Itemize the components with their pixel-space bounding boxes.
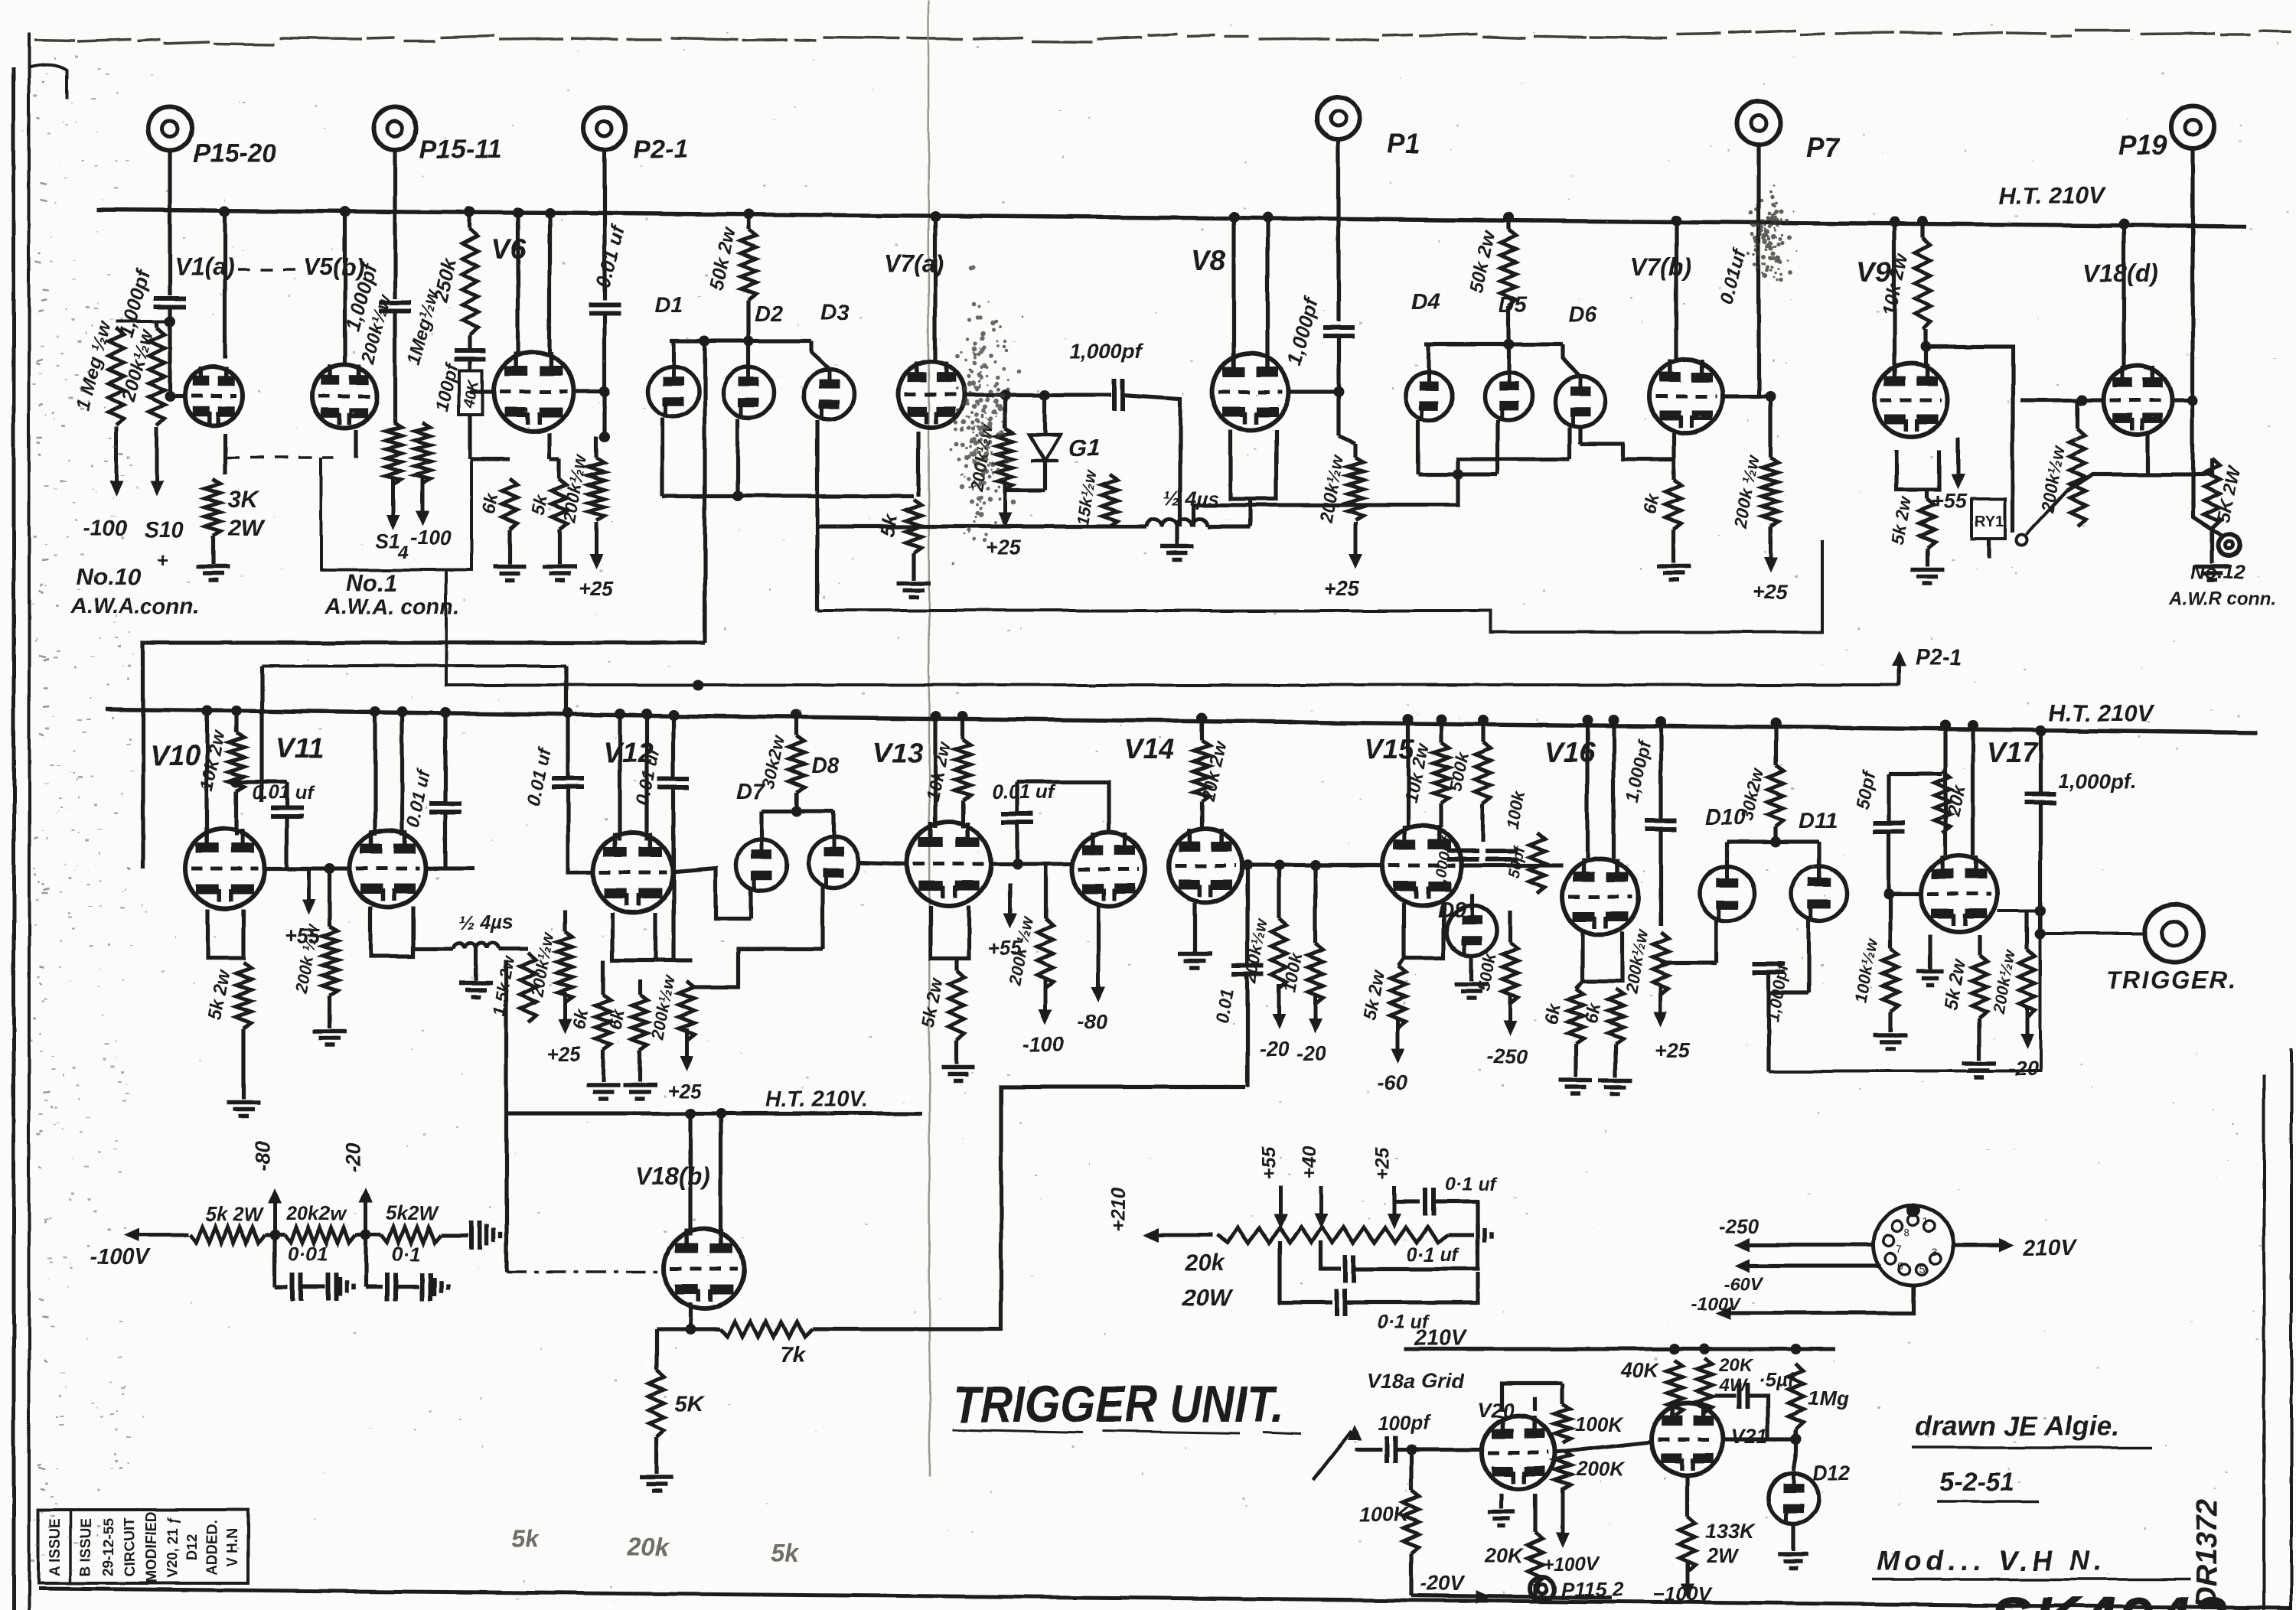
smudge near V7a <box>950 265 1022 565</box>
arrow input NE <box>1348 1425 1362 1440</box>
resistor 500k (V15) <box>1476 742 1491 803</box>
ground V20 cathode <box>1488 1512 1515 1526</box>
capacitor 1,000pf (V7a-V8) <box>1114 379 1123 411</box>
resistor 500k lower (V15) <box>1502 943 1518 1004</box>
wire 20k bottom (V14) <box>1199 802 1203 829</box>
wire branch bot right <box>1345 1272 1478 1302</box>
resistor 100k (V14) <box>1308 943 1323 1004</box>
svg-text:2W: 2W <box>1706 1544 1740 1567</box>
junction V18b cathode <box>685 1324 696 1335</box>
junction rail1 V6a <box>513 207 523 218</box>
junction -20 node <box>360 1230 371 1240</box>
ground chain end <box>487 1224 501 1246</box>
wire D4 cathode down <box>1416 420 1420 474</box>
junction rail2 30k D10 <box>1770 718 1781 728</box>
junction V18b L <box>685 1108 696 1119</box>
arrow to +55 (V10) <box>302 869 316 915</box>
wire 100k top (V17) <box>1888 894 1892 949</box>
wire V13 grid right <box>993 862 1071 865</box>
svg-text:-20: -20 <box>342 1142 365 1172</box>
wire V8 anode R to rail <box>1265 217 1269 354</box>
arrow to +25 (V6) <box>589 522 603 569</box>
svg-text:5k2W: 5k2W <box>386 1201 439 1224</box>
wire D8 to V13 grid <box>857 862 907 864</box>
wire D4-D6 anode bus <box>1425 342 1563 346</box>
junction 20K4W <box>1699 1344 1710 1354</box>
wire +55 stub (V13) <box>1008 883 1012 898</box>
wire D7 cathode dn <box>748 889 752 918</box>
wire V7b cathode stub <box>1671 433 1675 479</box>
junction -80 node <box>269 1230 280 1240</box>
junction rail1 V7b <box>1671 215 1681 226</box>
resistor 200K (chain) <box>1555 1451 1570 1489</box>
wire -80 cap run <box>275 1285 288 1289</box>
wire -20 node dn <box>364 1235 367 1287</box>
wire V13 cathode loop <box>931 906 969 958</box>
junction 40K <box>1669 1344 1680 1354</box>
wire P19 stem <box>2190 148 2194 505</box>
wire 500k dn (V15) <box>1481 803 1485 842</box>
svg-text:V17: V17 <box>1987 737 2039 768</box>
capacitor 100pf <box>1387 1436 1395 1463</box>
svg-text:-80: -80 <box>251 1141 274 1171</box>
wire 250k top <box>468 212 471 228</box>
wire D6 cathode down <box>1567 427 1571 459</box>
wire V16 cathode loop <box>1583 932 1623 981</box>
wire 30k top (D10) <box>1773 723 1777 765</box>
border left inner line <box>28 32 31 1610</box>
arrow -60V left <box>1734 1259 1750 1273</box>
resistor 5k2w (V15) <box>1391 966 1406 1027</box>
junction rail1 V8b <box>1262 212 1273 223</box>
wire V18d grid left <box>2020 398 2102 402</box>
svg-text:RY1: RY1 <box>1975 513 2004 530</box>
arrow to -20 (V17) <box>2020 1007 2034 1050</box>
junction rail2 20k V14 <box>1196 712 1207 723</box>
junction D4D5 bus <box>1453 469 1463 480</box>
connector P2-1 <box>583 107 626 150</box>
junction 200k V14 <box>1274 860 1284 871</box>
svg-text:4W: 4W <box>1718 1375 1748 1396</box>
wire cap top to V14 <box>1017 782 1109 833</box>
wire V8 loop down <box>1248 499 1252 526</box>
ground under D9 <box>1455 984 1489 998</box>
ground under coil (V11) <box>459 983 493 997</box>
wire P2-1 lower stem <box>602 313 606 436</box>
wire V12L cap dn <box>568 787 593 872</box>
svg-text:20k: 20k <box>627 1533 670 1560</box>
arrow -100V left (socket) <box>1716 1306 1731 1320</box>
wire 50k top to rail (D5) <box>1506 217 1510 230</box>
junction V18b R <box>716 1108 726 1119</box>
resistor 1 Meg half-w <box>109 328 124 425</box>
resistor 5k2w (V13) <box>949 970 964 1041</box>
junction bus D2 <box>743 336 754 347</box>
svg-text:-100V: -100V <box>1691 1294 1742 1315</box>
resistor 10k2w (V10) <box>229 733 244 791</box>
arrow -250 left <box>1734 1238 1750 1252</box>
svg-text:20K: 20K <box>1718 1355 1754 1376</box>
ground under 3K <box>196 567 230 581</box>
svg-text:5k: 5k <box>511 1525 540 1553</box>
potentiometer 20k 20W body <box>1217 1227 1448 1243</box>
wire 6kL top (V16) <box>1576 981 1583 989</box>
resistor 6k (V12 R) <box>632 995 647 1050</box>
junction V17 grid <box>1883 888 1894 899</box>
resistor 5k2w (V10) <box>236 963 251 1029</box>
wire D10 cathode route <box>1661 960 1717 964</box>
svg-text:-20: -20 <box>2008 1058 2038 1080</box>
wire V14R gnd stub <box>1192 932 1196 952</box>
wire -20 cap run <box>366 1285 383 1289</box>
wire D9 anode stub <box>1469 894 1473 908</box>
wire P15-20 stem <box>168 150 171 295</box>
resistor 5K (V6) <box>552 479 567 530</box>
resistor 5k 2w (V9) <box>1919 499 1935 548</box>
capacitor 0.01uf (V12 left) <box>552 779 584 787</box>
svg-text:+25: +25 <box>1753 580 1789 603</box>
svg-text:0.01 uf: 0.01 uf <box>253 782 315 803</box>
svg-text:V20, 21 ƒ: V20, 21 ƒ <box>165 1516 181 1578</box>
wire 1Mg dn <box>1794 1429 1798 1452</box>
wire 200k dn (V11) <box>328 995 331 1028</box>
wire D1 anode stub <box>671 341 675 367</box>
svg-text:D3: D3 <box>820 301 849 325</box>
junction 100pf-100K <box>1406 1444 1417 1455</box>
junction bus D5 <box>1503 339 1514 350</box>
junction rail2 V16b <box>1608 715 1619 725</box>
resistor 30k2w (D10) <box>1768 765 1783 826</box>
resistor 20K 4W <box>1697 1358 1712 1413</box>
capacitor 1000pf (V17 right) <box>2024 794 2056 803</box>
capacitor 0.1 (chain) <box>387 1273 396 1301</box>
wire 5k dn (V9) <box>1925 548 1929 566</box>
wire cap dn (V10) <box>285 782 289 808</box>
svg-text:-100: -100 <box>410 526 452 549</box>
wire V18d cathode stub <box>2146 435 2150 474</box>
wire 6kR dn <box>638 1050 641 1082</box>
wire 210V line (socket) <box>1953 1243 1999 1247</box>
wire 5k top (V17) <box>1977 935 1981 955</box>
double triode V13 <box>907 822 991 906</box>
wire branch 0.1uf bot <box>1280 1241 1332 1302</box>
svg-text:5: 5 <box>1919 1262 1926 1274</box>
wire 6K dn <box>507 530 511 565</box>
wire loop to 5k (V15) <box>1398 958 1404 966</box>
wire +55 stub <box>1955 441 1959 453</box>
svg-text:P2-1: P2-1 <box>1915 645 1962 670</box>
wire trigger run <box>2040 932 2144 935</box>
capacitor 0.01 (chain) <box>292 1273 301 1301</box>
wire P19 to No.12 <box>2193 501 2221 535</box>
wire 5K horiz (V18b) <box>657 1327 690 1331</box>
junction rail2 V17b <box>1968 720 1978 731</box>
wire switch feed <box>2066 474 2148 491</box>
wire V21 right to D12 <box>1724 1437 1796 1441</box>
svg-text:D4: D4 <box>1411 290 1440 315</box>
wire 10k bottom (V10) <box>234 791 238 836</box>
wire 7k run <box>690 1327 719 1331</box>
double triode V10 <box>185 829 265 908</box>
junction rail2 capR V12 <box>668 709 679 720</box>
wire V12 anode R to rail2 <box>644 714 648 840</box>
wire V12R cap up <box>671 715 675 779</box>
connector No.12 <box>2218 534 2239 556</box>
svg-text:+25: +25 <box>1372 1146 1394 1180</box>
wire V8 grid right <box>1289 389 1339 393</box>
resistor 15K 2w <box>1102 474 1117 526</box>
svg-text:100pf: 100pf <box>1378 1411 1431 1434</box>
wire cap-40K <box>468 359 471 370</box>
wire 30k bottom to bus <box>794 793 798 811</box>
socket notch <box>1906 1203 1920 1217</box>
connector P115-2 <box>1530 1576 1554 1601</box>
wire 6kL dn <box>601 1050 605 1082</box>
ground under V7a 5k <box>897 583 931 597</box>
wire V6 cathode right <box>547 433 551 459</box>
double triode V15 <box>1382 826 1462 905</box>
svg-text:-100V: -100V <box>90 1245 152 1269</box>
arrow 210V right <box>1999 1238 2014 1252</box>
diode D8 <box>808 837 859 888</box>
wire 6kL top <box>601 960 605 995</box>
wire V1a grid <box>170 394 184 398</box>
svg-text:+100V: +100V <box>1543 1553 1600 1575</box>
resistor 6k (V16 R) <box>1608 989 1623 1044</box>
svg-text:1,000pf.: 1,000pf. <box>2059 770 2136 793</box>
arrow to -100 (V1a) <box>109 427 123 496</box>
wire 30k bottom (D10) <box>1773 826 1777 842</box>
wire cap dn (D11) <box>1766 973 1770 1071</box>
svg-text:20W: 20W <box>1182 1284 1233 1311</box>
wire bottom run (D11) <box>1769 934 2040 1071</box>
triode V18(d) <box>2103 366 2172 435</box>
ground pot right <box>1478 1224 1492 1246</box>
resistor 200k half-w (V11b) <box>557 932 572 1002</box>
wire V15 anode L to rail2 <box>1406 719 1410 828</box>
svg-text:40K: 40K <box>1620 1359 1661 1382</box>
svg-text:20K: 20K <box>1484 1544 1525 1567</box>
svg-text:D1: D1 <box>655 293 683 318</box>
wire 6kR dn (V16) <box>1613 1044 1617 1077</box>
svg-text:V11: V11 <box>276 732 324 764</box>
svg-text:H.T. 210V: H.T. 210V <box>2048 699 2155 726</box>
svg-text:No.1: No.1 <box>346 569 397 596</box>
wire down to loop from D bus <box>1194 474 1458 526</box>
wire to 5K <box>550 457 559 461</box>
svg-text:20k2w: 20k2w <box>285 1201 347 1224</box>
border left corner hook <box>29 65 67 99</box>
wire cap up (V13) <box>1015 782 1019 814</box>
svg-text:V13: V13 <box>872 737 923 768</box>
wire D12 dn <box>1791 1524 1795 1550</box>
junction rail2 10k V10 <box>231 706 242 716</box>
svg-text:+25: +25 <box>986 536 1022 559</box>
wire branch 0.1uf top <box>1394 1194 1420 1202</box>
junction V11 grid 200k <box>325 863 335 874</box>
wire -80 node dn <box>272 1235 276 1287</box>
wire 5K dn (V18d) <box>2210 528 2213 563</box>
wire 20k top (V14) <box>1199 718 1203 741</box>
wire 200k stub (V11b) <box>563 911 566 932</box>
resistor 5k 2W (left) <box>190 1227 265 1243</box>
double triode V16 <box>1562 859 1639 935</box>
wire V21 cathode dn <box>1685 1475 1689 1517</box>
junction V7b grid <box>1765 391 1776 402</box>
connector P15-20 <box>148 107 191 150</box>
junction trigger node2 <box>2035 928 2046 939</box>
arrow +210 left <box>1143 1228 1212 1242</box>
junction rail2 10k V13 <box>957 711 968 722</box>
wire cap to inductor col <box>1123 395 1180 526</box>
wire 40K down <box>468 415 471 459</box>
svg-text:V21: V21 <box>1731 1425 1768 1448</box>
wire D7 anode stub <box>759 811 763 840</box>
svg-text:-20V: -20V <box>1420 1572 1466 1595</box>
ground under 5K (V6) <box>543 567 576 581</box>
wire 100pf run2 <box>1396 1447 1482 1451</box>
svg-text:V18(d): V18(d) <box>2083 259 2158 287</box>
svg-text:-80: -80 <box>1078 1010 1107 1033</box>
wire D11 cathode route <box>1769 991 1808 995</box>
junction rail1 50k (D5) <box>1503 212 1514 223</box>
wire HT rail 1 (210V top) <box>96 210 2246 227</box>
wire V10 cathode loop <box>207 909 243 958</box>
capacitor 0.01uf (V13-V14) <box>1001 814 1033 823</box>
svg-text:5k: 5k <box>771 1539 801 1566</box>
underline 5-2-51 <box>1936 1500 2039 1503</box>
svg-text:-20: -20 <box>1296 1042 1326 1065</box>
wire V18b anode L <box>688 1113 692 1236</box>
resistor 6k (V12 L) <box>595 995 611 1050</box>
svg-text:1,000pf: 1,000pf <box>1070 340 1143 363</box>
svg-text:-100: -100 <box>83 517 127 541</box>
wiper +55 <box>1274 1186 1287 1229</box>
capacitor 1000pf at P15-11 <box>379 302 411 311</box>
svg-text:P15-20: P15-20 <box>193 139 277 168</box>
resistor 200k half-w (V12) <box>679 981 694 1041</box>
svg-text:29-12-55: 29-12-55 <box>101 1518 117 1576</box>
wire V11 grid right link <box>426 866 475 870</box>
svg-text:5k 2W: 5k 2W <box>205 1203 265 1226</box>
wire V14L cathode <box>1096 906 1100 957</box>
ground under V7b 6K <box>1657 566 1691 580</box>
wire -100V line (socket) <box>1731 1286 1913 1313</box>
capacitor 0.01 (V14 out) <box>1231 966 1264 974</box>
resistor 100K (V20) <box>1404 1491 1419 1553</box>
resistor 6k (V16 L) <box>1568 989 1583 1044</box>
junction rail1 10k (V9) <box>1917 216 1928 227</box>
wire V11R cap dn <box>443 812 447 869</box>
svg-text:P1: P1 <box>1387 128 1420 159</box>
wire 500k top (V15) <box>1481 720 1485 742</box>
arrow to -250 <box>1503 996 1517 1036</box>
wire .5uf run <box>1714 1393 1736 1397</box>
wire cathode bus to coil <box>914 524 1146 528</box>
wire branch 0.1uf mid <box>1321 1241 1341 1269</box>
wire 50pf dn <box>1887 832 1890 894</box>
wire D6 cathode route <box>1458 459 1570 474</box>
svg-text:+25: +25 <box>1655 1039 1691 1062</box>
svg-text:P115 2: P115 2 <box>1561 1578 1623 1601</box>
wire D2 cathode down <box>735 419 739 496</box>
double triode V11 <box>350 830 426 907</box>
arrow -20 up <box>359 1188 373 1235</box>
wire loopB right leg <box>564 666 568 712</box>
wire bus C to P2-1 arrow <box>446 570 1899 685</box>
wire 40K to 6K top <box>470 457 510 461</box>
wire loop to coil (V11) <box>411 949 415 957</box>
wire 100pf run <box>1355 1447 1382 1451</box>
junction rail2 V12b <box>641 709 652 719</box>
wire V16 cap up <box>1658 722 1662 820</box>
svg-text:2W: 2W <box>227 514 266 541</box>
resistor 5K (V18b) <box>649 1370 664 1437</box>
wire P2-1 col to V6 grid <box>573 389 605 393</box>
wire 200k stub (V7a) <box>1003 395 1006 429</box>
wire loop to 5k (V13) <box>954 958 958 970</box>
socket pins <box>1883 1214 1941 1274</box>
capacitor 1,000pf (P1) <box>1322 328 1355 336</box>
wire V11 cathode loop <box>370 906 413 957</box>
triode V1(a) <box>184 367 243 425</box>
resistor 6K (V7b) <box>1666 479 1681 530</box>
svg-text:0·1 uf: 0·1 uf <box>1407 1244 1459 1266</box>
wire D3 column to loop <box>815 526 819 611</box>
bottom border line <box>38 1589 2292 1608</box>
resistor 5k (V7a) <box>906 499 921 552</box>
resistor 7k <box>719 1322 813 1337</box>
wire -80 cap run2 <box>302 1285 325 1289</box>
wire V12 to V18b long <box>504 960 508 1272</box>
resistor 200k half-w (P1) <box>1348 458 1363 520</box>
svg-text:-100: -100 <box>1022 1033 1064 1056</box>
diode D9 <box>1446 905 1497 956</box>
junction trigger node <box>2035 905 2046 916</box>
resistor 200k half-w (V16) <box>1653 932 1668 995</box>
svg-text:V8: V8 <box>1191 244 1226 275</box>
wire HT 210V stub (V18b) <box>507 1111 922 1115</box>
wire .5uf run2 <box>1748 1396 1768 1439</box>
dash-dot grid V18b <box>507 1270 663 1273</box>
wire V6 grid left <box>470 389 494 393</box>
wire 20K dn (V20) <box>1533 1584 1537 1598</box>
resistor 200k half-w (V13) <box>1038 918 1053 989</box>
triode V7(a) <box>899 362 964 428</box>
wire cap to V11 grid2 <box>287 866 350 870</box>
wire V13 anode L to rail2 <box>933 716 937 828</box>
wire V17 anode R to rail2 <box>1971 725 1975 856</box>
wire 250k-cap <box>468 335 471 350</box>
wire coil gnd stub (V11) <box>474 949 478 981</box>
underline Mod <box>1872 1578 2190 1581</box>
diode D7 <box>736 840 787 891</box>
double triode V21 <box>1652 1403 1724 1475</box>
junction 100k V14 <box>1310 860 1321 871</box>
potentiometer 40K boxed <box>459 370 482 415</box>
capacitor 0.01uf (V12 right) <box>657 779 690 787</box>
ground under coil <box>1160 546 1194 560</box>
wire 50pf top run <box>1889 772 1942 776</box>
svg-text:S1: S1 <box>375 530 400 552</box>
svg-text:No.12: No.12 <box>2190 560 2245 583</box>
wire 200k top (P1) <box>1339 436 1355 444</box>
capacitor .5uf <box>1739 1383 1747 1409</box>
svg-text:D12: D12 <box>185 1534 201 1561</box>
double triode V9 <box>1874 363 1948 437</box>
diode D6 <box>1555 376 1606 427</box>
wire 10k top (V13) <box>960 716 964 739</box>
